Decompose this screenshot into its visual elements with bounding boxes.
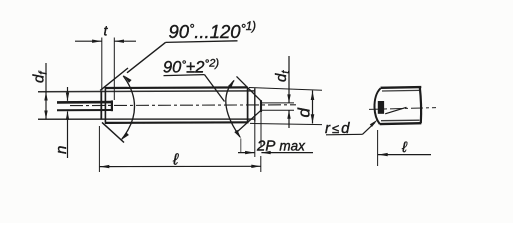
cone flat tip vertical bbox=[260, 100, 262, 112]
svg-text:d: d bbox=[295, 108, 314, 118]
r<=d underline bbox=[326, 133, 363, 136]
dimension 2P max: dimension line with outside arrows bbox=[238, 152, 254, 154]
dimension df: vertical line with outward arrows bbox=[45, 63, 47, 119]
left angle arc with arrows bbox=[122, 76, 135, 139]
dimension t: left arrow and tail bbox=[75, 40, 102, 42]
label 90 plus-minus 2 underline bbox=[164, 75, 205, 76]
label 90...120 underline bbox=[166, 41, 238, 43]
small view: center line bbox=[369, 108, 436, 110]
cone base vertical 1 bbox=[247, 87, 249, 122]
dimension l: right extension line stub bbox=[260, 156, 262, 172]
screw body outline bottom edge bbox=[105, 121, 249, 124]
screw body outline top edge bbox=[105, 86, 247, 89]
svg-text:df: df bbox=[31, 71, 50, 83]
left chamfer upper diagonal extended bbox=[100, 68, 128, 90]
lower cone extension artifact line bbox=[240, 139, 242, 153]
slot lower line bbox=[57, 109, 112, 111]
thread minor diameter bottom line (extends left as df extension) bbox=[38, 118, 255, 120]
small view: top inner line bbox=[382, 89, 420, 92]
leader from 90 plus-minus 2 label down to right angle arc bbox=[205, 75, 225, 102]
small view: top edge bbox=[381, 86, 422, 89]
dimension t: left extension line bbox=[101, 38, 103, 91]
cone point upper line extended bbox=[237, 76, 262, 101]
small view: slot dark bar bbox=[378, 101, 384, 114]
dimension 2P max: extension continuation of cone base and tip bbox=[254, 122, 256, 157]
dimension l: left extension line bbox=[98, 126, 100, 172]
dimension dt: extension lines from cone tip bbox=[261, 102, 294, 104]
dimension t: right arrow and tail bbox=[115, 40, 137, 42]
svg-text:2Pmax: 2Pmax bbox=[256, 138, 306, 155]
thread minor diameter top line (extends left as df extension) bbox=[38, 90, 255, 93]
slot bottom vertical bbox=[111, 100, 113, 111]
wire: screw axis center line bbox=[70, 104, 296, 107]
leader from 90...120 label continuing into chamfer extension bbox=[127, 42, 166, 72]
small view: rounded left end arc bbox=[374, 88, 380, 124]
left chamfer lower diagonal extended bbox=[102, 122, 124, 142]
dimension d: extension lines from body bbox=[249, 88, 322, 91]
cone point lower line extended bbox=[238, 110, 262, 131]
svg-text:t: t bbox=[104, 23, 109, 39]
small view dimension l: line with left arrow bbox=[378, 154, 431, 156]
small view: bottom inner line bbox=[381, 119, 420, 122]
leader from r<=d with arrow bbox=[363, 123, 376, 135]
dimension t: right extension line bbox=[113, 38, 115, 101]
dimension l: line with outward arrows bbox=[100, 165, 261, 167]
svg-text:ℓ: ℓ bbox=[172, 152, 179, 169]
small view: right end face bbox=[420, 87, 421, 123]
svg-text:ℓ: ℓ bbox=[401, 139, 408, 156]
small view: bottom edge bbox=[380, 122, 422, 125]
svg-text:dt: dt bbox=[273, 70, 292, 82]
slot upper line bbox=[57, 101, 112, 104]
left chamfer base vertical bbox=[104, 87, 106, 123]
right angle arc with arrows bbox=[226, 81, 240, 138]
svg-text:90°±2°2): 90°±2°2) bbox=[163, 57, 219, 77]
svg-text:90°...120°1): 90°...120°1) bbox=[169, 21, 257, 42]
dimension n: vertical line crossing slot, arrows point inward bbox=[67, 87, 69, 101]
small view: inner diagonal line bbox=[385, 107, 406, 114]
left end face bbox=[100, 91, 102, 119]
dimension dt: vertical line with outside arrows bbox=[288, 56, 290, 103]
svg-text:n: n bbox=[53, 146, 70, 154]
dimension d: vertical line with outward arrows bbox=[312, 91, 314, 124]
small view dimension l: extension line bbox=[377, 130, 379, 166]
cone base vertical 2 bbox=[254, 88, 256, 122]
